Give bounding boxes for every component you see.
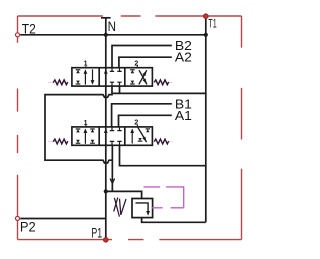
valve U2 position-2 cell symbols [130, 127, 150, 143]
wire T2 horizontal [20, 34, 206, 36]
port T1 marker [203, 14, 208, 19]
svg-text:A2: A2 [175, 50, 192, 65]
flow arrow on line P1 [110, 179, 115, 184]
valve U2 center cell symbols [104, 127, 122, 145]
wire tank return valve2 [120, 145, 206, 165]
wire B1 [112, 104, 172, 127]
svg-text:T1: T1 [208, 17, 217, 31]
wire N vertical [105, 18, 107, 239]
wire wrap-around valve1 to valve2 with hop [45, 86, 112, 191]
pilot line (dashed) relief valve [144, 186, 184, 208]
port N top tick [101, 17, 111, 19]
svg-text:P1: P1 [91, 226, 102, 241]
wire relief input [106, 191, 142, 198]
spring relief valve [114, 197, 126, 216]
wire relief output to tank [142, 218, 206, 223]
spring valve U1 right [168, 81, 172, 83]
spring valve U2 right [168, 141, 172, 143]
valve U1 position labels [84, 60, 139, 67]
relief valve RV1 body [132, 199, 153, 218]
svg-text:P2: P2 [20, 220, 36, 235]
junction node relief tee [104, 189, 108, 193]
enclosure dashed border [18, 16, 242, 240]
valve U1 position-1 cell symbols [76, 69, 95, 85]
svg-text:A1: A1 [175, 108, 192, 123]
wire tank return valve1 [113, 86, 206, 93]
port T2 marker [16, 33, 20, 37]
valve U1 center cell symbols [104, 68, 122, 86]
port P2 marker [16, 216, 20, 220]
wire B2 [112, 46, 172, 68]
wire T1 vertical [205, 17, 207, 223]
junction node T1-T2 [204, 33, 208, 37]
spring valve U2 left [48, 141, 53, 143]
svg-text:T2: T2 [22, 22, 36, 37]
relief valve RV1 internal arrow [136, 203, 149, 212]
valve U2 position labels [84, 120, 139, 127]
valve U1 position-2 cell symbols [130, 70, 147, 85]
valve U2 position-1 cell symbols [76, 128, 95, 143]
wire A1 [119, 115, 172, 127]
valve U1 body [72, 68, 152, 86]
spring valve U1 left [48, 81, 53, 83]
port P1 marker [103, 237, 108, 242]
valve U2 body [72, 127, 152, 145]
junction node N-T2 [104, 33, 108, 37]
wire P2 horizontal [20, 218, 106, 220]
svg-text:N: N [108, 19, 116, 34]
wire A2 [119, 57, 172, 67]
